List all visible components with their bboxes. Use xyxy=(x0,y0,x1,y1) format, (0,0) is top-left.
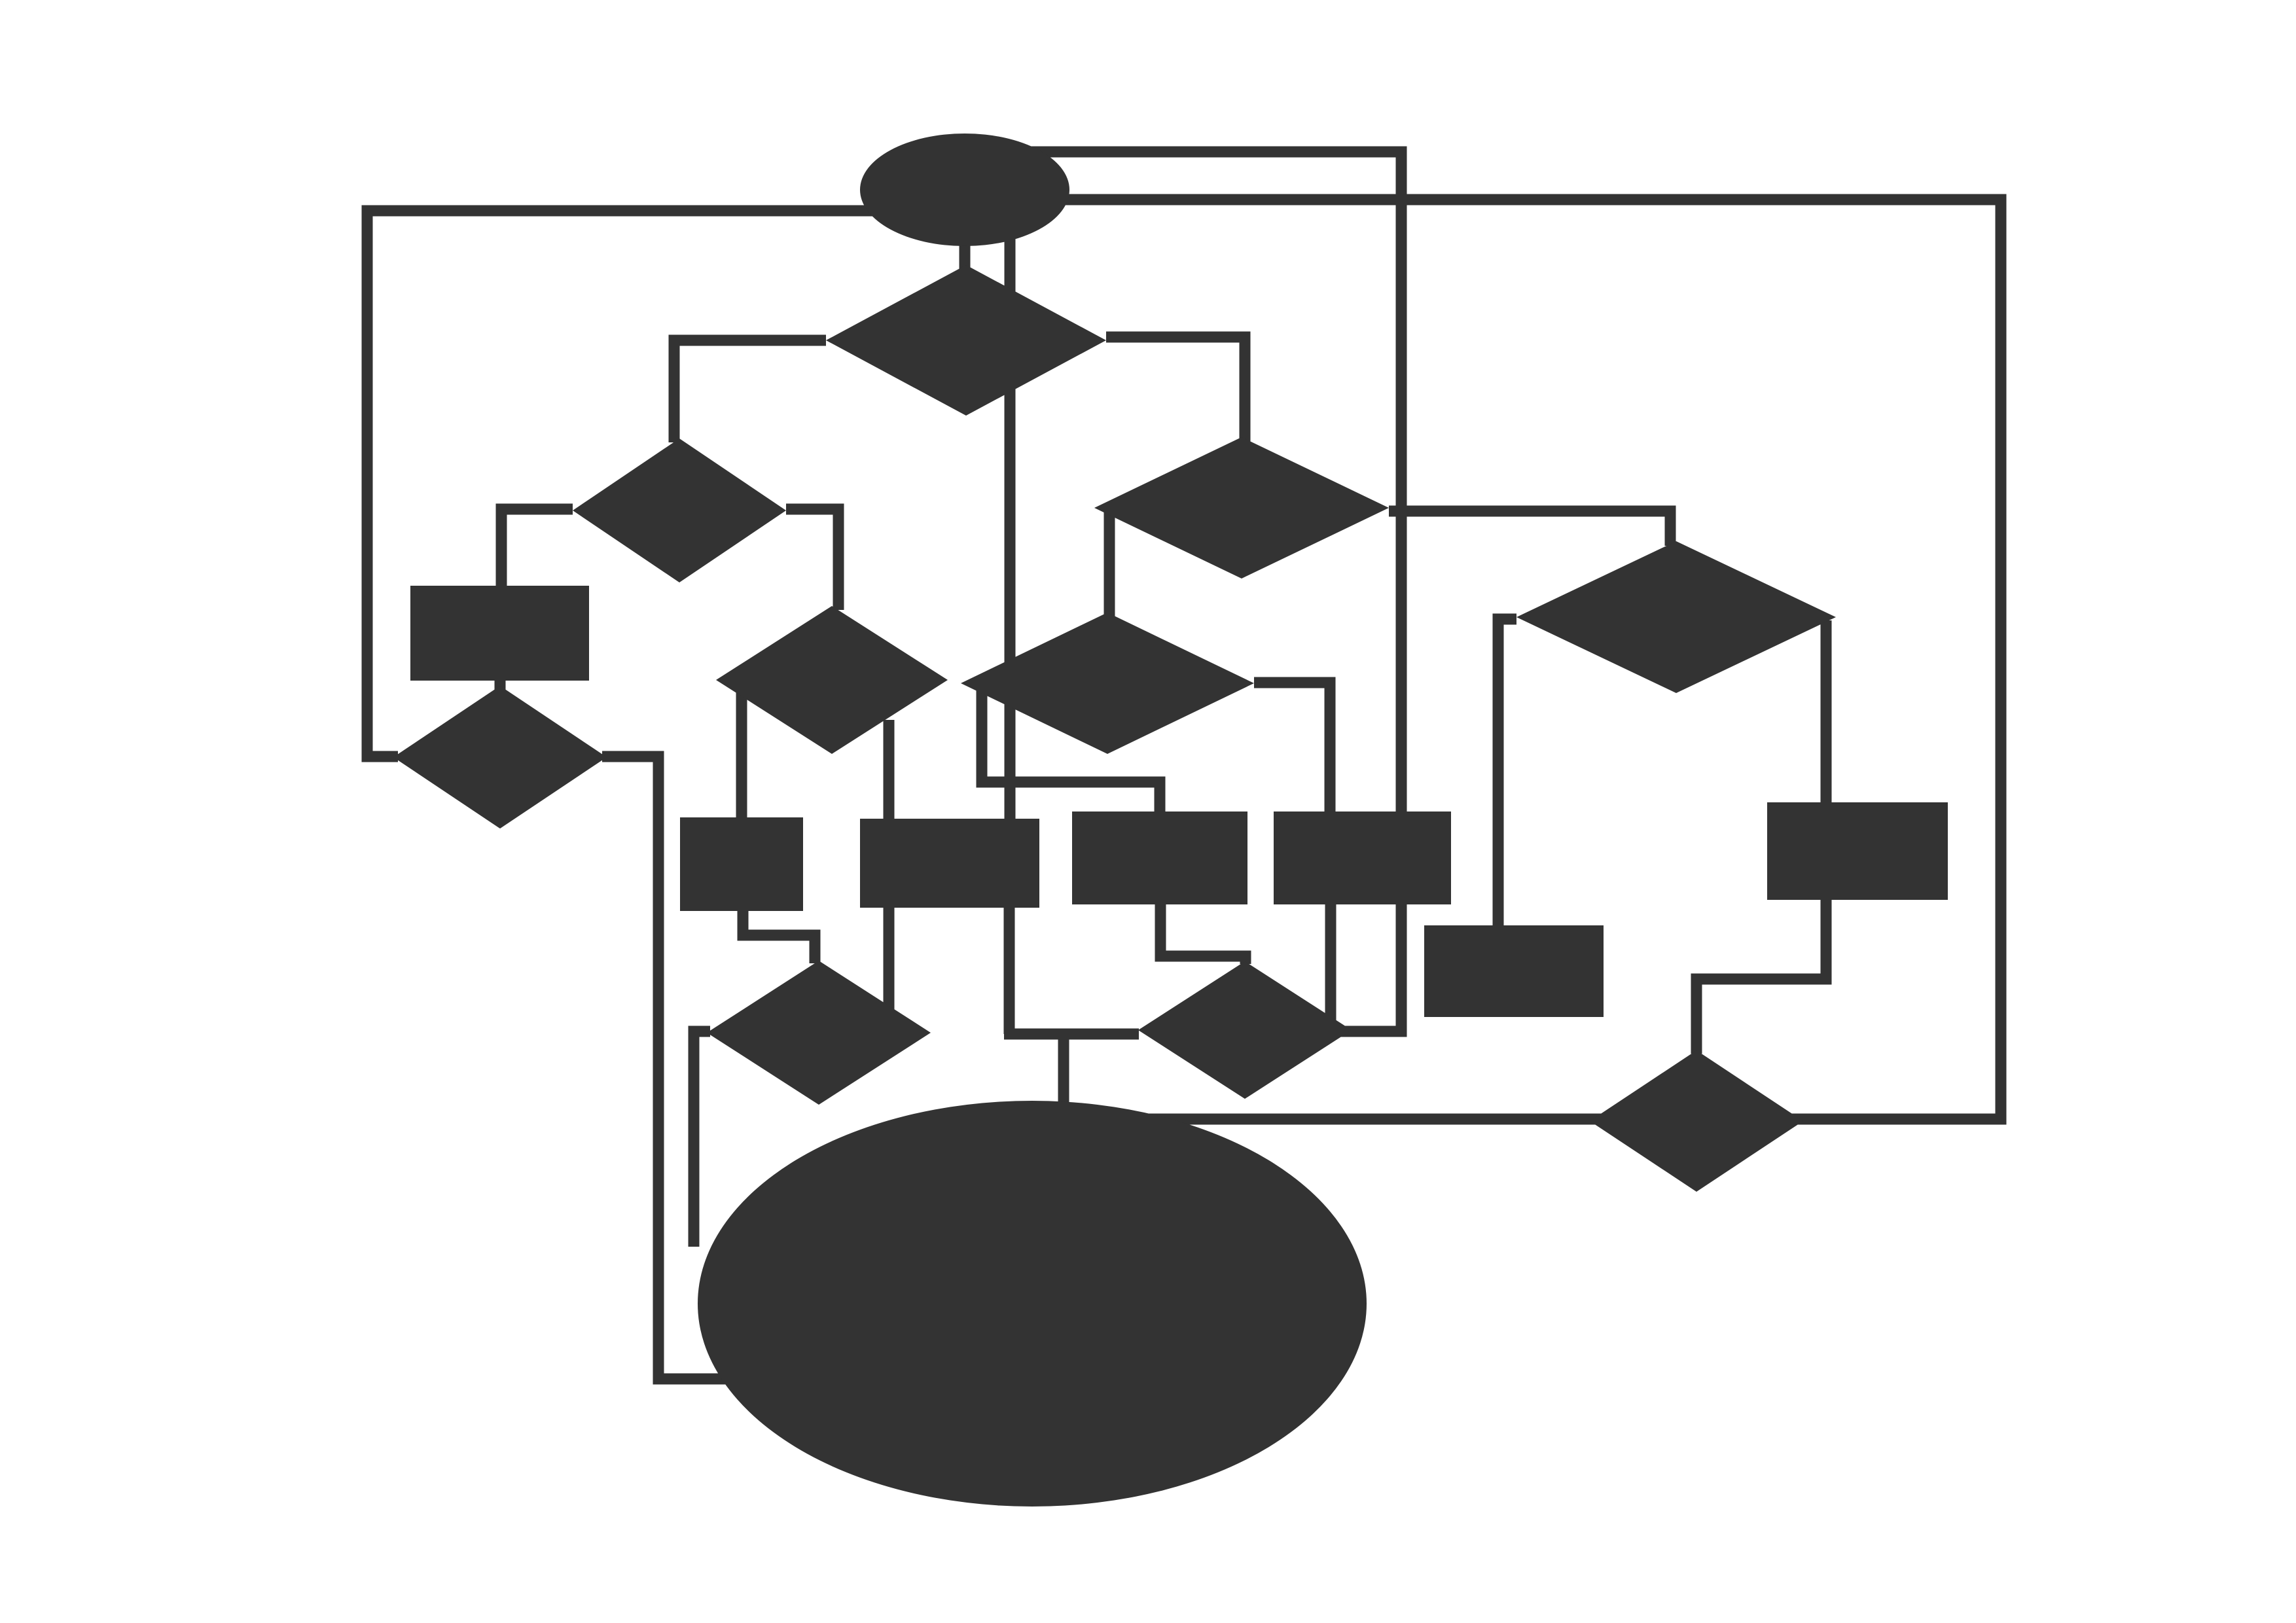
wire D1 left to D2 top xyxy=(674,340,826,442)
decision diamond D10 xyxy=(1590,1050,1803,1192)
decision diamond D9 xyxy=(1138,961,1352,1099)
wire D3 left to D7 top xyxy=(1104,509,1115,616)
process rect R2 xyxy=(680,817,803,911)
wire D7 right to R4 top xyxy=(1254,683,1330,814)
decision diamond D4 xyxy=(1516,541,1836,693)
process rect R4 xyxy=(1274,811,1451,904)
decision diamond D7 xyxy=(961,613,1254,754)
wire R3 bottom to D9 top xyxy=(1160,902,1246,964)
decision diamond D5 xyxy=(393,686,607,829)
wire D2 right to D6 top xyxy=(786,509,838,610)
start ellipse E1 xyxy=(860,134,1069,246)
wire D4 left to R6 top xyxy=(1498,619,1516,928)
decision diamond D8 xyxy=(707,961,931,1105)
wire outer-left: top edge A + left edge + stub to D5 left vertex xyxy=(367,211,965,757)
wire D4 right to R5 top xyxy=(1821,620,1832,805)
wire D7 left down, H1 across, to R3 top xyxy=(982,686,1160,814)
wire D1 right to D3 top xyxy=(1106,337,1245,442)
decision diamond D3 xyxy=(1094,437,1389,579)
end ellipse E2 xyxy=(698,1101,1367,1507)
wire D5 right down to E2 left xyxy=(602,757,736,1379)
wire R2 bottom to D8 top xyxy=(743,908,815,963)
process rect R5 xyxy=(1767,802,1948,900)
wire V1: E1 bottom long vertical down to R2b top xyxy=(1005,216,1016,823)
process rect R3 xyxy=(1072,811,1247,904)
wire R5 bottom to D10 top xyxy=(1696,898,1826,1054)
wire line C: E1 right to top-right corner, down right edge, bottom edge to E2 xyxy=(965,200,2001,1119)
wire R2b bottom down to D9 left with stub down to E2 top xyxy=(1004,905,1139,1109)
decision diamond D6 xyxy=(716,606,948,754)
wire D6 left to R2 top xyxy=(736,690,747,820)
process rect R6 xyxy=(1424,925,1604,1017)
wire D3 right to D4 top xyxy=(1389,511,1670,546)
wire R1 bottom to D5 top xyxy=(495,678,506,695)
process rect R1 xyxy=(410,586,589,681)
wire D8 left to E2 top-left xyxy=(694,1031,710,1247)
decision diamond D1 xyxy=(826,265,1106,416)
wire line B: E1 right, down right side, to D9 right, with stub up to R4 bottom xyxy=(965,152,1401,1031)
wire D2 left to R1 top xyxy=(501,509,573,589)
process rect R2b xyxy=(860,819,1039,908)
wire E1 bottom to D1 top xyxy=(960,190,971,275)
wire D6 lower edge through R2b down to D8 upper-right edge xyxy=(884,720,895,1011)
decision diamond D2 xyxy=(573,438,786,582)
